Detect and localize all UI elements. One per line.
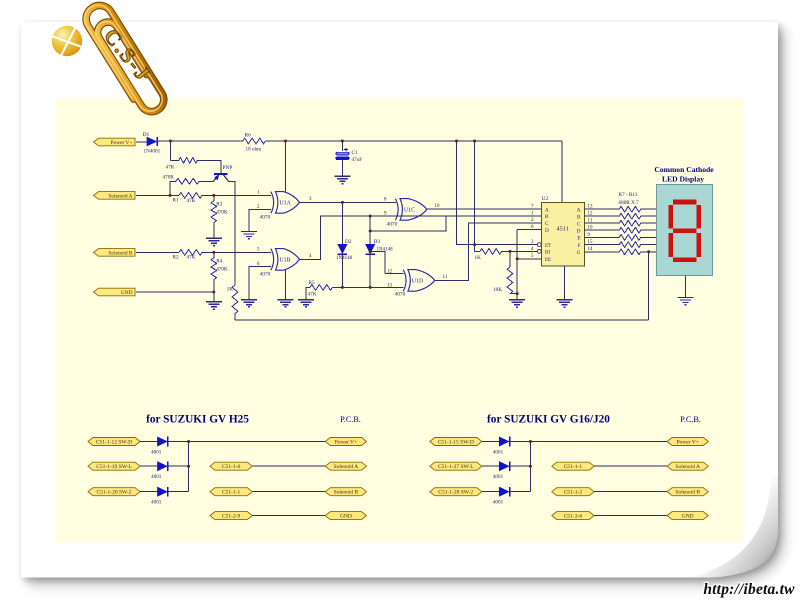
diode 4001 [158, 437, 168, 446]
svg-text:P.C.B.: P.C.B. [340, 415, 361, 424]
svg-text:Solenoid B: Solenoid B [108, 250, 133, 256]
wire tag to diode [482, 491, 500, 493]
tag Power V+ [667, 438, 708, 446]
svg-text:LT: LT [545, 244, 551, 249]
transistor Q1 PNP [214, 173, 227, 175]
wire diode to bus [510, 491, 530, 493]
wire diode bus [529, 442, 531, 492]
wire bottom common rail [235, 319, 649, 321]
svg-text:Solenoid B: Solenoid B [675, 490, 700, 496]
7-segment LED display [656, 185, 712, 276]
svg-text:C51-1-20 SW-2: C51-1-20 SW-2 [97, 490, 132, 496]
svg-text:for SUZUKI GV G16/J20: for SUZUKI GV G16/J20 [487, 414, 610, 426]
ground under U1B pin6 [241, 300, 257, 307]
svg-text:680R X 7: 680R X 7 [619, 200, 640, 206]
svg-text:GND: GND [682, 514, 694, 520]
wire to pcb tag [594, 491, 667, 493]
ground under C1 [334, 176, 350, 183]
svg-text:R5: R5 [309, 280, 315, 286]
wire diode bus [188, 442, 190, 492]
tag C51-1-20 SW-2 [88, 488, 140, 496]
wire resistor to base [198, 160, 221, 173]
wire U1A out to U1C pin8 [300, 201, 396, 203]
op-amp U1C xor gate 4070 [400, 199, 427, 221]
wire tag to D1 [136, 141, 147, 143]
svg-text:11: 11 [443, 275, 448, 280]
svg-text:4001: 4001 [493, 450, 504, 456]
svg-text:R4: R4 [216, 259, 222, 265]
svg-text:Power V+: Power V+ [335, 439, 357, 445]
svg-text:R6: R6 [245, 133, 252, 139]
svg-text:PNP: PNP [223, 165, 233, 171]
ground under R4 [206, 302, 222, 309]
wire display cathode to ground [685, 275, 687, 297]
resistor 470R [170, 181, 176, 195]
wire to pcb tag [594, 465, 667, 467]
wire R5 ground branch [306, 287, 310, 299]
tag C51-3-6 [552, 512, 594, 520]
svg-text:4001: 4001 [493, 500, 504, 506]
wire G row to bottom rail [648, 252, 650, 320]
wire 47K branch to PNP base [171, 141, 179, 160]
svg-text:D1: D1 [143, 132, 150, 138]
svg-text:C: C [545, 221, 549, 227]
wire tag to diode [140, 465, 158, 467]
ground under 10K net [509, 300, 525, 307]
tag Power V+ [325, 438, 366, 446]
wire diode to bus [169, 465, 189, 467]
svg-text:47K: 47K [166, 165, 175, 171]
svg-text:LED Display: LED Display [662, 175, 704, 184]
svg-text:C51-2-9: C51-2-9 [222, 514, 241, 520]
wire bus to Power tag [530, 441, 667, 443]
svg-text:C51-1-28 SW-2: C51-1-28 SW-2 [438, 490, 473, 496]
diode 4001 [499, 487, 509, 496]
wire D3 elbow to B line [370, 217, 446, 231]
tag GND [325, 512, 366, 520]
tag GND [667, 512, 708, 520]
resistor 1K near 4511 [480, 249, 502, 255]
resistor R5 47K [310, 285, 332, 291]
svg-text:10K: 10K [493, 287, 502, 293]
svg-text:U1B: U1B [280, 257, 291, 263]
svg-text:1K: 1K [475, 255, 482, 261]
ground under U1B [278, 300, 294, 307]
resistor R1 47K [179, 193, 202, 199]
svg-text:P.C.B.: P.C.B. [680, 415, 701, 424]
svg-text:Power V+: Power V+ [676, 439, 698, 445]
tag C51-1-28 SW-2 [430, 488, 482, 496]
tag Power V+ [94, 138, 136, 146]
svg-text:G: G [577, 250, 581, 256]
svg-text:12: 12 [387, 269, 393, 274]
tag C51-1-1 [210, 488, 252, 496]
svg-text:U1A: U1A [280, 200, 292, 206]
diode 4001 [499, 437, 509, 446]
svg-text:U1C: U1C [404, 208, 415, 214]
svg-text:C51-1-6: C51-1-6 [222, 464, 241, 470]
svg-text:C51-3-6: C51-3-6 [564, 514, 583, 520]
svg-text:http://ibeta.tw: http://ibeta.tw [703, 581, 795, 598]
ground under display [678, 298, 694, 305]
wire R2 to U1B pin5 [202, 251, 271, 253]
diode 4001 [158, 462, 168, 471]
svg-text:GND: GND [340, 514, 352, 520]
wire U1B pin6 to ground [249, 266, 271, 299]
tag C51-1-6 [210, 462, 252, 470]
resistor R3 470K [213, 195, 215, 201]
svg-text:Solenoid B: Solenoid B [334, 490, 359, 496]
wire diode to bus [510, 465, 530, 467]
svg-text:D: D [577, 228, 581, 234]
svg-text:Solenoid A: Solenoid A [675, 464, 700, 470]
ground under 4511 [557, 300, 573, 307]
svg-text:10: 10 [435, 204, 441, 209]
svg-text:R1: R1 [173, 198, 179, 204]
svg-text:4001: 4001 [151, 450, 162, 456]
wire Solenoid B row [136, 251, 179, 253]
ground under R5 [298, 300, 314, 307]
svg-text:Solenoid A: Solenoid A [108, 193, 132, 199]
wire D3 to U1D pin12 [370, 252, 403, 274]
svg-text:4070: 4070 [387, 221, 398, 227]
svg-text:47uF: 47uF [352, 157, 363, 163]
svg-text:47K: 47K [308, 291, 317, 297]
op-amp U1D xor gate 4070 [408, 270, 435, 292]
wire U1A power stub [285, 141, 287, 192]
wire R1 to U1A pin 1 [202, 194, 271, 196]
schematic sheet background [56, 99, 744, 542]
wire to pcb tag [594, 515, 667, 517]
svg-text:47K: 47K [187, 198, 196, 204]
resistor 47K upper [179, 157, 198, 163]
capacitor C1 47uF [341, 141, 343, 151]
wire tag to diode [482, 441, 500, 443]
svg-text:C51-1-15 SW-D: C51-1-15 SW-D [438, 439, 474, 445]
svg-text:C51-1-27 SW-L: C51-1-27 SW-L [438, 464, 474, 470]
IC U2 4511 [542, 203, 585, 267]
svg-text:B: B [577, 214, 581, 220]
diode D1 [147, 137, 156, 146]
tag C51-1-12 SW-D [88, 438, 140, 446]
tag Solenoid A [325, 462, 366, 470]
svg-text:U1D: U1D [412, 279, 423, 285]
svg-text:for SUZUKI GV H25: for SUZUKI GV H25 [146, 414, 249, 426]
svg-text:A: A [545, 207, 549, 213]
tag Solenoid A [667, 462, 708, 470]
svg-text:LE: LE [545, 258, 551, 263]
tag C51-1-19 SW-L [88, 462, 140, 470]
resistor R2 47K [179, 250, 202, 256]
svg-text:U2: U2 [542, 196, 549, 202]
svg-text:D2: D2 [345, 239, 352, 245]
svg-text:4070: 4070 [395, 291, 406, 297]
ground under R3 [206, 238, 222, 245]
svg-text:R3: R3 [216, 202, 222, 208]
tag Solenoid A [94, 192, 136, 200]
svg-text:4001: 4001 [493, 474, 504, 480]
wire diode to bus [510, 441, 530, 443]
svg-text:470R: 470R [163, 175, 175, 181]
tag C51-1-1 [552, 462, 594, 470]
svg-text:C51-1-2: C51-1-2 [564, 490, 583, 496]
svg-text:C51-1-1: C51-1-1 [564, 464, 583, 470]
diode 4001 [499, 462, 509, 471]
logo paperclip C.S-J [80, 0, 169, 118]
svg-text:Common Cathode: Common Cathode [654, 165, 714, 174]
wire bus to Power tag [189, 441, 326, 443]
tag Solenoid B [325, 488, 366, 496]
svg-text:C1: C1 [352, 150, 358, 156]
wire 4511 ground stub [564, 266, 566, 300]
svg-text:D: D [545, 228, 549, 234]
wire R5 to U1D pin13 [332, 286, 403, 288]
svg-text:Solenoid A: Solenoid A [334, 464, 359, 470]
wire to pcb tag [252, 491, 325, 493]
svg-text:C51-1-1: C51-1-1 [222, 490, 241, 496]
op-amp U1A xor gate 4070 [276, 192, 300, 214]
wire diode to bus [169, 441, 189, 443]
wire U1A pin2 to ground [249, 209, 271, 231]
svg-text:C51-1-19 SW-L: C51-1-19 SW-L [96, 464, 132, 470]
resistor 10K [509, 251, 511, 267]
svg-text:R7 - R13: R7 - R13 [619, 192, 638, 198]
wire tag to diode [140, 491, 158, 493]
svg-text:4001: 4001 [151, 500, 162, 506]
wire 4511 pin D and LE to ground [517, 230, 541, 300]
wire U1C out to 4511 pin A [427, 208, 542, 210]
svg-text:Power V+: Power V+ [111, 140, 133, 146]
svg-text:4070: 4070 [260, 215, 271, 221]
svg-text:18 ohm: 18 ohm [246, 147, 262, 153]
wire diode to bus [169, 491, 189, 493]
diode D3 1N4148 [369, 216, 371, 244]
svg-text:470K: 470K [216, 210, 228, 216]
ground under U1A pin2 [241, 232, 257, 239]
resistor R6 18 ohm [243, 138, 266, 144]
svg-text:BI: BI [545, 251, 550, 256]
svg-text:4070: 4070 [260, 272, 271, 278]
svg-text:E: E [577, 236, 580, 242]
wire to pcb tag [252, 515, 325, 517]
tag GND [94, 288, 136, 296]
wire rail to LT pin [457, 141, 538, 245]
diode 4001 [158, 487, 168, 496]
wire rail to BI pin via 1K [474, 141, 476, 251]
svg-text:1K: 1K [227, 287, 234, 293]
svg-text:GND: GND [121, 290, 133, 296]
op-amp U1B xor gate 4070 [276, 249, 300, 271]
wire 10K to ground net [510, 293, 517, 295]
svg-text:R2: R2 [173, 254, 179, 260]
svg-text:A: A [577, 207, 581, 213]
svg-text:C51-1-12 SW-D: C51-1-12 SW-D [96, 439, 132, 445]
tag Solenoid B [94, 249, 136, 257]
svg-text:C: C [577, 221, 581, 227]
resistor R4 470K [213, 252, 215, 258]
wire tag to diode [482, 465, 500, 467]
svg-text:13: 13 [387, 283, 393, 288]
tag C51-1-15 SW-D [430, 438, 482, 446]
svg-text:1N4148: 1N4148 [336, 256, 353, 261]
svg-text:470K: 470K [216, 267, 228, 273]
svg-text:4511: 4511 [557, 226, 569, 233]
wire U1B out to B net [300, 216, 542, 259]
svg-text:F: F [578, 243, 581, 249]
tag Solenoid B [667, 488, 708, 496]
logo gold ball [52, 26, 82, 56]
page curl shading [688, 468, 778, 578]
wire to pcb tag [252, 465, 325, 467]
tag C51-2-9 [210, 512, 252, 520]
wire GND row [136, 291, 214, 293]
svg-text:4001: 4001 [151, 474, 162, 480]
tag C51-1-2 [552, 488, 594, 496]
wire top power rail [158, 140, 243, 142]
svg-text:1N4001: 1N4001 [144, 149, 161, 155]
node junction dots on rail [169, 140, 172, 143]
svg-text:D3: D3 [374, 239, 381, 245]
wire tag to diode [140, 441, 158, 443]
wire 1K to bottom rail [234, 314, 236, 320]
wire U1D out to 4511 pin C [435, 223, 542, 281]
wire U1B ground stub [285, 270, 287, 299]
resistor 1K vertical [232, 285, 238, 314]
wire collector down [229, 181, 236, 285]
pin bubbles LT BI [537, 243, 541, 247]
wire Solenoid A row [136, 194, 179, 196]
diode D2 1N4148 [341, 202, 343, 244]
svg-text:B: B [545, 214, 549, 220]
svg-text:47K: 47K [187, 255, 196, 261]
tag C51-1-27 SW-L [430, 462, 482, 470]
